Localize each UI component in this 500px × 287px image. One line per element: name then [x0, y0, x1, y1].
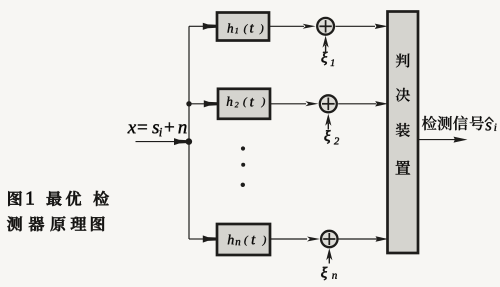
- decision device box: [388, 12, 419, 254]
- adder (summing node) n: [321, 231, 337, 247]
- wire h1 to adder 1: [270, 24, 316, 29]
- filter box h1(t): [217, 13, 269, 41]
- wire adder n to decision box: [339, 236, 389, 241]
- input junction node dot: [186, 138, 193, 145]
- label zhuang (decision char 3): [396, 123, 410, 137]
- input label x = s_i + n: [127, 122, 186, 136]
- wire adder 2 to decision box: [338, 101, 388, 106]
- input arrow wire: [136, 138, 187, 145]
- label zhi (decision char 4): [395, 161, 410, 175]
- wire h2 to adder 2: [270, 101, 318, 106]
- caption line 1: fig 1 optimal de: [8, 191, 108, 206]
- vertical bus wire: [188, 26, 190, 239]
- label hn(t): [228, 235, 266, 246]
- caption line 2: tector principle diagram: [7, 216, 104, 231]
- label jue (decision char 2): [396, 88, 410, 102]
- label h1(t): [227, 23, 263, 34]
- label xi_1: [322, 52, 335, 66]
- wire bus to h1: [189, 23, 217, 30]
- label pan (decision char 1): [396, 54, 410, 68]
- label h2(t): [227, 97, 265, 108]
- noise input arrow xi_1: [323, 36, 329, 52]
- output label: detection signal s_i: [422, 116, 497, 131]
- ellipsis dot 1: [241, 146, 245, 150]
- adder (summing node) 2: [320, 95, 337, 112]
- output arrow wire: [419, 137, 468, 143]
- wire hn to adder n: [270, 237, 320, 242]
- label xi_n: [321, 267, 337, 280]
- junction node dot branch 2: [186, 101, 191, 106]
- wire bus corner to hn: [189, 235, 217, 242]
- label xi_2: [325, 130, 340, 144]
- noise input arrow xi_n: [326, 248, 332, 263]
- wire adder 1 to decision box: [336, 24, 388, 29]
- filter box hn(t): [217, 224, 270, 255]
- wire bus to h2: [189, 100, 218, 107]
- ellipsis dot 3: [241, 183, 245, 187]
- noise input arrow xi_2: [325, 114, 331, 130]
- ellipsis dot 2: [241, 163, 245, 167]
- filter box h2(t): [218, 89, 270, 119]
- adder (summing node) 1: [317, 18, 334, 35]
